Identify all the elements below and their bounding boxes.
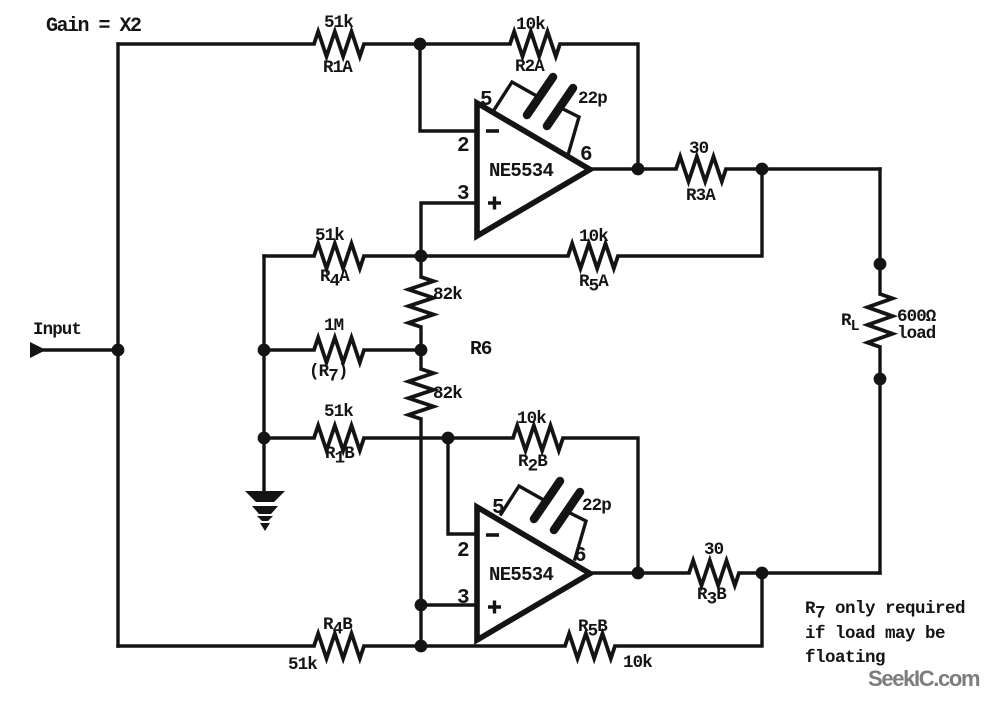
svg-text:R6: R6: [470, 338, 492, 360]
wire U1 output to R3A: [589, 167, 676, 170]
node output U2 / R2B: [632, 567, 645, 580]
node load bottom terminal: [874, 373, 887, 386]
svg-text:6: 6: [580, 144, 592, 167]
node chain top (pin3 U1/R4A/R5A/82k): [415, 250, 428, 263]
wire input bus vertical: [116, 44, 119, 646]
capacitor C2 lead to pin 6: [568, 512, 586, 559]
svg-text:Gain = X2: Gain = X2: [46, 15, 141, 38]
svg-text:SeekIC.com: SeekIC.com: [868, 666, 980, 691]
resistor R3A 30: [676, 157, 726, 182]
wire 1M line left: [264, 348, 314, 351]
resistor R6 82k lower: [409, 369, 434, 419]
wire bottom line from input bus to R4B: [118, 644, 314, 647]
capacitor C2 plate 2: [554, 492, 580, 530]
input terminal arrow: [30, 342, 46, 358]
node load top terminal: [874, 258, 887, 271]
wire U2 output to R3B: [589, 571, 689, 574]
op-amp U1 minus sign: [486, 129, 499, 133]
capacitor C2 plate 1: [534, 481, 560, 519]
resistor R5A 10k: [568, 244, 618, 269]
svg-text:R2A: R2A: [515, 57, 545, 77]
op-amp U1 plus sign: [488, 197, 501, 210]
svg-text:51k: 51k: [288, 655, 317, 675]
resistor R4A 51k: [314, 244, 364, 269]
capacitor C1 lead to pin 6: [561, 108, 579, 155]
svg-text:10k: 10k: [517, 409, 546, 429]
svg-text:3: 3: [457, 183, 469, 206]
svg-text:load: load: [897, 324, 936, 344]
node left rail / R1B / ground: [258, 432, 271, 445]
resistor R3B 30: [689, 561, 739, 586]
svg-text:10k: 10k: [579, 227, 608, 247]
wire 82k chain mid lead: [419, 327, 422, 369]
resistor R1A 51k: [314, 32, 364, 57]
wire R1B line left: [264, 436, 314, 439]
wire 82k chain lower lead down to pin3 U2 node: [419, 419, 422, 646]
capacitor C1 plate 2: [547, 88, 573, 126]
op-amp U1 NE5534 triangle: [477, 103, 590, 236]
capacitor C1 plate 1: [527, 77, 553, 115]
wire top line R1A to node A1: [364, 42, 510, 45]
resistor R5B 10k: [565, 634, 615, 659]
svg-text:82k: 82k: [433, 384, 462, 404]
svg-text:NE5534: NE5534: [489, 564, 554, 586]
wire R5A right lead up to output node A: [618, 169, 762, 256]
wire node B1 down to pin 2 of U2: [448, 438, 476, 534]
svg-text:5: 5: [480, 89, 492, 112]
svg-text:6: 6: [574, 545, 586, 568]
svg-text:51k: 51k: [324, 13, 353, 33]
wire R2B right lead and drop to output node: [563, 438, 638, 573]
svg-text:floating: floating: [805, 648, 885, 668]
wire left rail vertical to ground: [262, 256, 265, 491]
wire pin 3 of U1 to R4A/R5A rail: [421, 203, 476, 256]
svg-text:2: 2: [457, 540, 469, 563]
node bottom rail / chain: [415, 640, 428, 653]
wire 1M line right: [364, 348, 421, 351]
node B1 (R1B/R2B/pin2 U2): [442, 432, 455, 445]
wire R4A left lead from left rail: [264, 254, 314, 257]
svg-text:R1A: R1A: [323, 58, 353, 78]
svg-text:51k: 51k: [324, 402, 353, 422]
svg-text:1M: 1M: [324, 316, 344, 336]
wire input lead: [44, 348, 118, 351]
capacitor C1 22p lead from pin 5: [494, 82, 535, 110]
svg-text:22p: 22p: [582, 496, 611, 516]
wire 82k chain upper lead: [419, 256, 422, 277]
op-amp U2 plus sign: [488, 601, 501, 614]
wire R2A right lead and drop to output node: [560, 44, 638, 169]
svg-text:10k: 10k: [516, 15, 545, 35]
wire bottom line R4B to chain node: [364, 644, 565, 647]
svg-text:NE5534: NE5534: [489, 160, 554, 182]
svg-text:3: 3: [457, 587, 469, 610]
ground symbol: [245, 491, 285, 531]
wire load right bus upper: [878, 169, 881, 294]
wire R5B right lead up to output node B: [615, 573, 762, 646]
wire top line from input bus to R1A: [118, 42, 314, 45]
resistor R2B 10k: [513, 426, 563, 451]
wire R1B line mid to node B1: [364, 436, 513, 439]
node output U1 / R2A: [632, 163, 645, 176]
svg-text:51k: 51k: [315, 226, 344, 246]
svg-text:2: 2: [457, 135, 469, 158]
wire output node B to load bottom corner: [762, 571, 880, 574]
resistor R1B 51k: [314, 426, 364, 451]
svg-text:if load may be: if load may be: [805, 624, 945, 644]
wire load right bus lower: [878, 347, 881, 573]
op-amp U2 NE5534 triangle: [477, 507, 590, 640]
wire pin 3 of U2 line: [421, 603, 476, 606]
op-amp U2 minus sign: [486, 533, 499, 537]
resistor R2A 10k: [510, 32, 560, 57]
node input junction: [112, 344, 125, 357]
resistor R4B 51k: [314, 634, 364, 659]
node output A (R3A/R5A/load): [756, 163, 769, 176]
svg-text:Input: Input: [33, 320, 81, 340]
svg-text:R3A: R3A: [686, 186, 716, 206]
svg-text:82k: 82k: [433, 285, 462, 305]
resistor RL 600 ohm load: [868, 294, 893, 347]
resistor R7 1M: [314, 338, 364, 363]
svg-text:5: 5: [492, 497, 504, 520]
resistor R6 82k upper: [409, 277, 434, 327]
capacitor C2 22p lead from pin 5: [501, 486, 542, 514]
svg-text:10k: 10k: [623, 653, 652, 673]
node A1 (R1A/R2A/pin2 U1): [414, 38, 427, 51]
node pin3 U2 / 82k chain: [415, 599, 428, 612]
node 82k middle / 1M: [415, 344, 428, 357]
wire output node A to load top corner: [762, 167, 880, 170]
wire node A1 down to pin 2 of U1: [420, 44, 476, 131]
svg-text:30: 30: [704, 540, 724, 560]
wire chain node to R5A: [421, 254, 568, 257]
node output B (R3B/R5B/load): [756, 567, 769, 580]
svg-text:22p: 22p: [578, 89, 607, 109]
wire R4A to chain node: [364, 254, 421, 257]
svg-text:30: 30: [689, 139, 709, 159]
wire R3A to output node A: [726, 167, 762, 170]
node left rail / 1M: [258, 344, 271, 357]
wire R3B to output node B: [739, 571, 762, 574]
